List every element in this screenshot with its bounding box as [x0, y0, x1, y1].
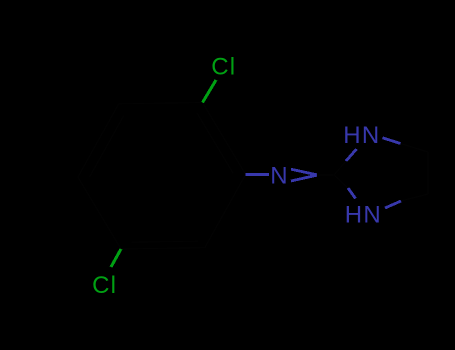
svg-text:N: N [270, 162, 287, 189]
bond N3-C5 blue half [385, 201, 401, 208]
wire C6-C5 [121, 248, 205, 249]
wire double bond inner C3-C4 [90, 116, 124, 178]
benzene ring C1-C6 [78, 103, 246, 250]
wire double bond inner C5-C6 [132, 241, 199, 242]
bond C5-Cl (bottom) [111, 249, 121, 267]
wire C5-C4 [78, 177, 121, 249]
bond C2'-N3 dark half [334, 175, 348, 188]
double bond N=C2' upper [291, 169, 317, 175]
wire C2-C1 [203, 103, 246, 175]
bond C2'-N3 blue half [348, 188, 356, 199]
svg-text:HN: HN [343, 122, 380, 149]
svg-text:Cl: Cl [92, 272, 117, 299]
bond C2'-N1 dark half [334, 161, 346, 175]
wire C1-C6 [205, 174, 246, 247]
bond N3-C5 dark half [401, 194, 428, 201]
wire dark half N=C2' [317, 174, 334, 176]
wire double bond inner C2-C1 [197, 113, 233, 173]
bond N1-C4 dark half [401, 144, 429, 153]
wire C4-C3 [78, 104, 119, 177]
bond N1-C4 blue half [383, 138, 401, 144]
bond C2-Cl (top) [203, 80, 217, 103]
svg-text:Cl: Cl [211, 54, 236, 81]
double bond N=C2' lower [291, 175, 317, 181]
wire C3-C2 [119, 103, 203, 104]
bond C2'-N1 blue half [346, 149, 357, 161]
wire C4-C5 [427, 152, 429, 194]
svg-text:HN: HN [345, 201, 382, 228]
bond C1-N [246, 173, 269, 176]
